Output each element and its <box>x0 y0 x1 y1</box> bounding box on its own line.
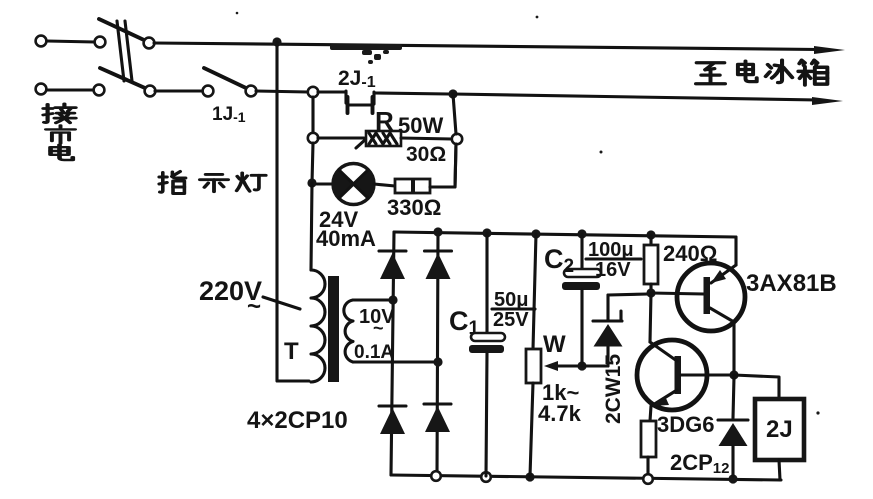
wire V2 down to primary top <box>311 183 312 270</box>
capacitor C2 100u/16V <box>562 269 601 290</box>
wire W bottom lead <box>530 383 533 476</box>
pointer line <box>263 297 300 309</box>
node: switch contact top-right <box>144 38 155 49</box>
transformer T primary winding <box>311 270 325 382</box>
svg-text:T: T <box>284 338 299 365</box>
svg-text:R: R <box>375 106 394 136</box>
wire 240ohm bottom lead <box>649 284 652 293</box>
switch blade (DPST pole 2) <box>100 68 145 88</box>
wire wiper to zener anode <box>582 364 608 367</box>
node dots on top rail <box>433 227 655 239</box>
switch blade (DPST pole 1) <box>99 19 144 40</box>
node junction base node J <box>646 288 655 297</box>
svg-text:50W: 50W <box>398 113 443 138</box>
label 指示灯 (indicator lamp) <box>159 172 266 194</box>
W wiper arm with arrow <box>544 361 584 371</box>
node junction secondary top / left branch <box>388 295 397 304</box>
wire 240ohm top lead <box>649 235 652 245</box>
transistor Q1 3AX81B <box>677 263 745 331</box>
arrow: bottom line <box>812 97 843 105</box>
wire: bridge right branch <box>437 232 438 476</box>
indicator lamp 24V 40mA <box>333 164 374 205</box>
svg-text:2CW15: 2CW15 <box>602 354 625 424</box>
svg-text:30Ω: 30Ω <box>406 143 446 166</box>
node junction (open) row2 / R network left <box>308 87 318 97</box>
wire: bridge left branch <box>391 232 394 475</box>
wire V1: top line down to transformer primary <box>277 42 309 381</box>
wire <box>374 93 449 94</box>
svg-text:2J: 2J <box>766 416 793 443</box>
node junction row2/V3 <box>448 89 457 98</box>
relay contact 2J-1 <box>346 91 374 113</box>
node dots on bottom rail <box>525 472 737 483</box>
resistor 330ohm <box>395 179 430 193</box>
relay coil 2J <box>755 399 804 460</box>
node: mains input terminal L <box>36 36 47 47</box>
wire: negative bottom rail <box>391 475 781 480</box>
zener diode 2CW15 <box>593 294 648 366</box>
wire <box>318 90 346 93</box>
svg-text:3AX81B: 3AX81B <box>746 270 837 297</box>
wire Q2 emitter to resistor <box>650 406 651 421</box>
diode D1 (2CP10 top-left) <box>379 251 406 279</box>
wire top rail corner to emitter <box>734 237 737 265</box>
speckles (scan artifacts) <box>236 12 820 415</box>
wire V2 segment <box>311 97 314 133</box>
switch mechanical linkage <box>117 21 132 81</box>
diode D4 (2CP10 bottom-right) <box>424 404 451 432</box>
wire Re bottom lead <box>646 457 649 474</box>
arrow tick at R <box>356 139 366 148</box>
node junction (open) R branch left <box>308 133 318 143</box>
svg-text:W: W <box>543 331 566 358</box>
wire C1 top lead <box>485 233 488 333</box>
wire C2 top lead <box>580 234 583 269</box>
node: switch pole top-left <box>95 37 106 48</box>
svg-text:0.1A: 0.1A <box>354 342 394 363</box>
node: relay contact 1J-1 right <box>246 86 257 97</box>
label 至电冰箱 (to refrigerator) <box>696 60 827 85</box>
transformer T secondary winding <box>344 300 353 362</box>
wire V2 segment <box>312 143 313 183</box>
wire C1 bottom lead <box>486 353 487 476</box>
wire: positive top rail <box>394 232 736 237</box>
wire secondary top to bridge left midpoint <box>353 298 390 301</box>
node: relay contact 1J-1 left <box>203 86 214 97</box>
switch blade 1J-1 <box>204 68 246 88</box>
node junction wiper / C2 <box>577 361 586 370</box>
svg-text:25V: 25V <box>493 309 529 331</box>
wire <box>256 91 308 92</box>
wire: bottom mains line to refrigerator <box>453 94 818 100</box>
resistor 240ohm <box>644 245 658 284</box>
node junction K (Q1 collector / Q2 base / relay) <box>729 370 738 379</box>
svg-text:4.7k: 4.7k <box>538 401 582 426</box>
capacitor C1 50u/25V <box>469 333 505 353</box>
wire <box>401 138 452 139</box>
transformer core <box>328 276 339 382</box>
svg-text:~: ~ <box>373 318 384 338</box>
svg-text:330Ω: 330Ω <box>387 195 441 220</box>
svg-text:16V: 16V <box>595 259 631 281</box>
arrow: top line <box>814 46 845 54</box>
node junction (open) R branch right <box>452 134 462 144</box>
wire W top lead <box>533 234 536 349</box>
node: mains input terminal N <box>36 84 47 95</box>
wire <box>47 88 93 91</box>
transistor Q2 3DG6 <box>637 340 734 410</box>
wire node K to relay <box>734 375 779 399</box>
wire relay bottom to rail <box>779 460 780 480</box>
svg-text:~: ~ <box>247 293 261 320</box>
label 50u/25V fraction <box>492 289 535 331</box>
wire C2 bottom lead <box>580 290 583 366</box>
node junction on top line <box>272 37 281 46</box>
node: switch pole bottom-left <box>94 85 105 96</box>
diode 2CP12 (flyback) <box>718 420 748 476</box>
label 接市电 (connect to mains) <box>43 104 75 160</box>
wire node K down to diode <box>733 377 734 418</box>
wire node J to 3AX81B base <box>651 293 704 294</box>
node junction lamp branch left <box>307 178 316 187</box>
wire Q1 collector down <box>732 322 735 375</box>
wire <box>374 184 395 186</box>
potentiometer W body <box>526 349 541 383</box>
node rings on bottom rail <box>431 471 653 484</box>
resistor Re (emitter) <box>641 421 656 457</box>
wire secondary bottom to bridge right midpoint <box>353 360 435 363</box>
label 100u/16V fraction <box>586 239 641 281</box>
node junction secondary bottom / right branch <box>433 357 442 366</box>
svg-text:40mA: 40mA <box>316 226 376 251</box>
wire up to R right node <box>430 144 456 187</box>
wire: top mains line to refrigerator <box>154 43 820 50</box>
wire <box>47 41 95 42</box>
svg-text:3DG6: 3DG6 <box>657 412 714 437</box>
wire lamp branch <box>317 182 333 185</box>
diode D2 (2CP10 top-right) <box>425 251 452 279</box>
wire V3: row2 down through R right node <box>453 94 456 187</box>
diode D3 (2CP10 bottom-left) <box>379 406 406 434</box>
wire <box>155 89 202 92</box>
resistor R 30ohm 50W <box>366 131 401 146</box>
wire R branch <box>318 136 364 139</box>
svg-text:4×2CP10: 4×2CP10 <box>247 407 348 434</box>
wire node J down to 3DG6 collector <box>650 293 651 342</box>
node: switch contact bottom-right <box>145 86 156 97</box>
